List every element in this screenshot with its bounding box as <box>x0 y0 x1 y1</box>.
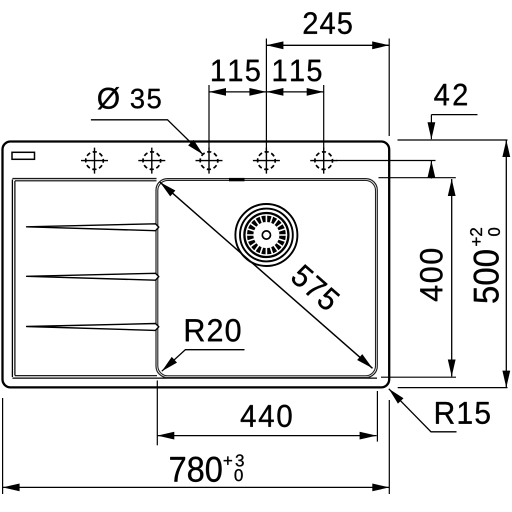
label 400 <box>420 249 443 301</box>
R20 arrowhead <box>159 357 177 374</box>
overflow tick on bowl top edge <box>229 178 245 181</box>
extension line tap-hole axis right <box>336 160 436 162</box>
leader line for hole diameter <box>91 120 203 155</box>
tap hole 3 <box>196 148 223 174</box>
42 dimension vertical upper <box>430 115 432 140</box>
label diameter 35 <box>98 87 119 109</box>
extension line hole4 up <box>265 39 267 151</box>
label 780 <box>170 457 221 482</box>
drainer rib 2 <box>27 273 159 280</box>
dimension 400 line <box>451 179 453 377</box>
drain strainer teeth <box>250 219 282 251</box>
42 leader underline <box>431 114 477 116</box>
tap hole 5 <box>310 148 337 174</box>
extension line bottom edge right <box>398 387 508 389</box>
dimension 115 right line <box>266 91 323 93</box>
bowl outline outer <box>156 179 377 378</box>
label 42 <box>434 84 467 106</box>
diagonal arrowhead top-left <box>157 179 175 196</box>
drain strainer outer rim <box>244 213 288 257</box>
dimension 500 line <box>505 140 507 388</box>
drain second ring <box>240 209 293 262</box>
tolerance +3 <box>224 454 244 466</box>
bowl outline inner <box>158 180 376 375</box>
tolerance 0 lower <box>235 469 243 481</box>
drainer rib 1 <box>27 224 159 231</box>
accessory hole rectangle <box>12 152 35 159</box>
dimension 115 left line <box>209 91 266 93</box>
extension line bowl top right <box>379 177 456 179</box>
extension line hole3 up <box>208 85 210 149</box>
drain center knob <box>262 231 270 239</box>
extension line bowl left down <box>156 381 158 446</box>
extension line hole5 up <box>323 85 325 149</box>
label R15 <box>436 402 490 424</box>
label 440 <box>241 405 292 427</box>
extension line bottom-right corner down <box>388 400 390 494</box>
drainboard inner edge left (double line) <box>11 180 13 378</box>
R15 leader line <box>389 389 457 432</box>
sink outer outline <box>3 142 390 388</box>
extension line top edge right <box>398 139 508 141</box>
dimension 245 line <box>266 44 389 46</box>
label 245 <box>304 12 352 34</box>
extension line bottom-left corner down <box>2 398 4 494</box>
dimension 780 line <box>3 486 390 488</box>
extension line bowl right down <box>376 391 378 442</box>
diagonal 575 dimension line <box>160 182 373 368</box>
label R20 <box>186 319 240 342</box>
label 500 <box>474 250 499 302</box>
R15 arrowhead <box>386 386 403 404</box>
diameter arrowhead <box>188 140 206 157</box>
R20 leader line <box>162 350 245 372</box>
drainboard inner edge top (double line) <box>12 178 156 180</box>
42 dimension arrow lower <box>428 161 436 178</box>
tap hole 1 <box>81 148 108 174</box>
dimension 440 line <box>157 435 376 437</box>
tap hole 2 <box>138 148 165 174</box>
drainboard inner edge bottom (double line) <box>15 375 157 377</box>
diagonal arrowhead bottom-right <box>357 354 375 371</box>
label 115 right <box>274 60 322 82</box>
tap hole 4 <box>253 148 280 174</box>
label 115 left <box>212 60 260 82</box>
tolerance +2 <box>470 228 482 246</box>
extension line top-right corner up <box>388 39 390 137</box>
tolerance 0 <box>488 228 500 236</box>
label 575 <box>290 263 341 312</box>
drain outer circle <box>235 204 297 266</box>
drainer rib 3 <box>27 324 159 331</box>
extension line bowl bottom right <box>381 376 456 378</box>
